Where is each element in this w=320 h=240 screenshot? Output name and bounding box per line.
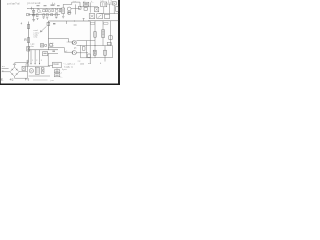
bridge bottom wire bbox=[15, 77, 28, 79]
label above stage 1 bbox=[37, 5, 40, 6]
detector box D1 bbox=[95, 7, 99, 12]
transistor Q2 bbox=[48, 9, 51, 12]
rail vertical x95 bbox=[94, 21, 96, 46]
junction vertical x48 bbox=[47, 53, 49, 66]
vertical wire x90 bbox=[89, 2, 91, 12]
svg-text:1: 1 bbox=[32, 60, 33, 62]
polarity plus mark bbox=[26, 60, 28, 62]
tuner box T2 bbox=[101, 2, 107, 7]
border frame right edge bbox=[118, 0, 120, 85]
capacitor C5 bbox=[55, 14, 57, 16]
C7 mark bbox=[27, 47, 29, 50]
svg-text:r.mx: r.mx bbox=[34, 37, 38, 39]
transformer bottom wire bbox=[29, 75, 50, 77]
label near x93 bbox=[92, 0, 94, 3]
control box B1 bbox=[53, 62, 62, 68]
wire drop 1 to transformer bbox=[30, 50, 32, 65]
wire bridge to C10 bbox=[19, 70, 27, 72]
capacitor C9 bbox=[93, 50, 96, 55]
Q5 base bar bbox=[72, 41, 74, 44]
drop 3 dot bbox=[39, 63, 40, 64]
annotation mark plus bbox=[21, 22, 23, 26]
diode D2 bbox=[116, 6, 118, 11]
B1 label bbox=[53, 62, 58, 66]
pin labels bbox=[32, 60, 42, 62]
coil L2 bbox=[84, 8, 87, 11]
IF transformer T1 box bbox=[62, 8, 65, 13]
Q1 leads bbox=[37, 8, 41, 13]
handwritten title annotation left bbox=[7, 2, 20, 6]
wire T2 to XTAL bbox=[107, 3, 113, 5]
capacitor C4 bbox=[51, 14, 53, 16]
resistor R8 bbox=[27, 24, 29, 28]
handwritten title annotation middle bbox=[27, 1, 41, 5]
capacitor C10 bbox=[22, 66, 26, 70]
F1 marks bbox=[90, 15, 93, 18]
rail vertical x110.5 bbox=[110, 21, 112, 46]
capacitor C3 bbox=[46, 14, 48, 16]
ground stage R1 bbox=[37, 18, 39, 21]
bottom small note bbox=[50, 80, 55, 82]
resistor R5 bbox=[59, 9, 61, 12]
wire top left stub bbox=[27, 7, 29, 9]
Q5 Q6 labels bbox=[74, 48, 77, 50]
wire Q5 emitter right bbox=[76, 44, 88, 46]
T3 internal lines bbox=[37, 68, 38, 74]
capacitor C2 bbox=[43, 10, 45, 12]
wire to control box bbox=[48, 64, 52, 66]
C11 mark bbox=[42, 69, 44, 73]
Y2 mark bbox=[41, 44, 43, 46]
junction dots on rail bbox=[95, 45, 96, 46]
capacitor C1 bbox=[32, 10, 35, 12]
trimmer arrow bbox=[40, 26, 46, 32]
junction dot x74 bbox=[74, 21, 75, 22]
Y1 mark bbox=[113, 2, 115, 4]
transistor Q3 bbox=[55, 10, 58, 13]
battery stack above bridge bbox=[13, 64, 16, 68]
K1 marks bbox=[102, 31, 104, 35]
resistor R3 bbox=[46, 9, 47, 12]
bridge bottom stub bbox=[14, 76, 16, 78]
coil L1 bbox=[32, 14, 35, 16]
F2 marks bbox=[98, 15, 102, 18]
svg-text:a.c: a.c bbox=[2, 66, 5, 68]
small box B3 bbox=[54, 74, 59, 77]
bridge diode mark 1 bbox=[12, 69, 14, 71]
second bus wire bbox=[28, 14, 60, 16]
svg-text:f. jada. t.c: f. jada. t.c bbox=[64, 65, 73, 68]
wire Q4 to rail bbox=[71, 8, 80, 10]
svg-text:t.v: t.v bbox=[74, 0, 76, 3]
T2 internal bbox=[102, 3, 105, 6]
vertical x95 lower bbox=[94, 46, 96, 58]
wire top-right lower bbox=[99, 13, 119, 15]
link between B2 B3 bbox=[56, 68, 58, 74]
stub junction x66 bbox=[66, 21, 68, 24]
notes text block bottom middle bbox=[60, 63, 76, 79]
wire lower rail bbox=[81, 57, 96, 59]
border frame bottom edge bbox=[0, 83, 120, 85]
mid bottom bus bbox=[29, 49, 59, 51]
wire: top main bus bbox=[27, 7, 62, 9]
left bus vertical bbox=[28, 22, 30, 63]
Q3 leads bbox=[55, 8, 57, 9]
L3 label bbox=[43, 53, 46, 54]
vertical wire at x75 bbox=[74, 4, 76, 14]
AC labels bbox=[2, 66, 5, 72]
wire to driver base bbox=[48, 39, 72, 42]
svg-text:4/2: 4/2 bbox=[10, 77, 14, 81]
wire to output base bbox=[48, 48, 71, 53]
handwritten title annotation right bbox=[52, 1, 56, 5]
bridge diode mark 2 bbox=[16, 69, 18, 71]
transistor Q6 output bbox=[72, 50, 76, 54]
Q5 emitter arrow bbox=[73, 41, 75, 44]
label above T2 bbox=[101, 0, 104, 3]
svg-text:r.fw: r.fw bbox=[30, 45, 34, 48]
small label right bottom bbox=[88, 63, 102, 65]
svg-text:1 2: 1 2 bbox=[108, 0, 112, 4]
vertical right of bridge bbox=[26, 62, 28, 79]
transistor Q5 driver bbox=[72, 40, 76, 44]
faint label below junction bbox=[74, 24, 77, 26]
bridge diode mark 4 bbox=[16, 73, 18, 75]
small mark right of C8 bbox=[53, 23, 55, 24]
resistor R12 bbox=[104, 50, 107, 55]
horizontal wire left low bbox=[15, 62, 29, 64]
bus under filters bbox=[88, 20, 119, 22]
drop 2 dot bbox=[35, 63, 36, 64]
label under F3 bbox=[104, 23, 108, 25]
output label under Q6 bbox=[78, 61, 82, 63]
resistor R6 bbox=[78, 6, 81, 9]
small box right bbox=[50, 44, 53, 47]
M2 mark bbox=[30, 70, 32, 72]
component on vertical bbox=[26, 64, 29, 66]
label above stage 2 bbox=[44, 5, 47, 6]
vertical x80.5 bbox=[80, 45, 82, 57]
svg-text:jm n.l w.nd: jm n.l w.nd bbox=[27, 1, 41, 5]
resistor R9 with label bbox=[27, 38, 29, 43]
resistor R2 bbox=[43, 14, 45, 17]
capacitor C11 bbox=[41, 68, 44, 73]
transistor Q1 bbox=[37, 10, 40, 13]
notes label right bbox=[80, 63, 85, 65]
trimmer C8 bbox=[47, 22, 50, 25]
wire right rail top bbox=[80, 6, 98, 8]
note text block mid-left bbox=[34, 30, 40, 38]
connector label left of stage1 bbox=[27, 13, 30, 15]
wire drop 3 to transformer bbox=[39, 50, 41, 65]
B2 label bbox=[55, 70, 58, 73]
resistor R10 bbox=[82, 47, 85, 51]
R9 label bbox=[24, 38, 27, 42]
vertical from Y1 down bbox=[113, 5, 115, 14]
mid vertical bus bbox=[47, 21, 49, 50]
Q5 label bbox=[67, 41, 70, 43]
motor M2 circle bbox=[29, 69, 33, 73]
caption formula bottom left bbox=[1, 77, 30, 81]
vertical x86.5 bbox=[86, 41, 88, 58]
T1 internal pins bbox=[62, 9, 63, 12]
filter box F2 bbox=[97, 14, 103, 19]
wire Q6 collector right bbox=[76, 52, 88, 54]
B3 label bbox=[55, 74, 58, 77]
Q6 base bar bbox=[72, 51, 74, 54]
meter M1 bbox=[67, 11, 71, 15]
stub up x83.5 bbox=[83, 18, 85, 21]
label above staircase bbox=[74, 0, 76, 3]
capacitor C7 bbox=[27, 46, 30, 51]
svg-text:Com: Com bbox=[53, 62, 58, 66]
label under F1 bbox=[90, 23, 94, 25]
AC input wire lower bbox=[2, 71, 10, 73]
U1 label bbox=[84, 3, 88, 4]
svg-text:~ r.- ad.h. c.v: ~ r.- ad.h. c.v bbox=[63, 63, 76, 66]
wire from L3 right bbox=[48, 52, 58, 54]
filter box F1 bbox=[89, 14, 95, 19]
svg-text:p.nl an? al: p.nl an? al bbox=[7, 2, 20, 6]
svg-text:t..: t.. bbox=[92, 0, 94, 3]
vertical from T2 down bbox=[103, 7, 105, 14]
transformer top wire bbox=[29, 65, 50, 67]
rail vertical x103 bbox=[102, 21, 104, 46]
resistor R7 bbox=[94, 32, 96, 38]
vertical x105 lower bbox=[104, 46, 106, 62]
ground C3 bbox=[46, 18, 48, 20]
wire staircase to R6 bbox=[72, 2, 80, 6]
label above U1 bbox=[83, 1, 86, 3]
M1 needle bbox=[68, 12, 70, 14]
ground below T1 bbox=[62, 13, 64, 18]
note text above bus bbox=[30, 44, 35, 48]
choke L3 bbox=[43, 52, 48, 56]
small marks x52-56 bbox=[52, 51, 55, 52]
M1 dots bbox=[68, 12, 69, 13]
AC input wire upper bbox=[2, 68, 9, 70]
svg-text:F-3: F-3 bbox=[25, 77, 30, 81]
svg-text:2: 2 bbox=[36, 60, 37, 62]
faint baseline bbox=[33, 79, 48, 81]
svg-text:J p.s.: J p.s. bbox=[62, 69, 67, 71]
crystal Y1 bbox=[112, 2, 116, 5]
transformer T3 bbox=[35, 67, 39, 74]
Q6 label bbox=[65, 51, 68, 53]
resistor R4 bbox=[52, 9, 53, 12]
vertical x112.4 lower bbox=[111, 46, 113, 58]
svg-text:E.: E. bbox=[1, 77, 4, 81]
vertical x90 lower bbox=[89, 46, 91, 64]
label top right corner bbox=[108, 0, 112, 4]
filter box F3 bbox=[105, 14, 110, 18]
bridge rectifier diamond bbox=[10, 67, 19, 76]
right rail horizontal mid bbox=[88, 45, 112, 47]
wire drop 2 to transformer bbox=[34, 50, 36, 65]
ground stage1 bbox=[32, 20, 35, 22]
small box above rail bbox=[107, 42, 111, 45]
ground C5 bbox=[55, 16, 57, 19]
crystal Y2 bbox=[40, 44, 43, 47]
vertical wire x109.6 bbox=[109, 4, 111, 14]
wire Q5 collector right bbox=[76, 40, 95, 42]
Q6 marks bbox=[74, 51, 76, 53]
resistor R1 bbox=[37, 14, 39, 17]
trimmer small circle bbox=[44, 44, 46, 46]
border frame left edge bbox=[0, 0, 1, 85]
C10 mark bbox=[23, 67, 25, 69]
svg-text:3: 3 bbox=[41, 60, 42, 62]
small box B2 bbox=[54, 70, 59, 73]
relay coil K1 bbox=[102, 30, 105, 38]
resistor R11 bbox=[88, 54, 91, 57]
stage1 vertical wire bbox=[33, 8, 35, 19]
C9 mark bbox=[94, 51, 96, 54]
bridge diode mark 3 bbox=[12, 73, 14, 75]
oscillator box U1 bbox=[83, 2, 89, 6]
D1 marks bbox=[96, 8, 98, 10]
note text small bbox=[51, 43, 55, 47]
rail vertical x90 upper bbox=[89, 21, 91, 46]
capacitor C6 bbox=[109, 36, 112, 40]
label above stage 3 bbox=[51, 5, 55, 6]
bottom right rail bbox=[95, 57, 112, 59]
long mid horizontal bus bbox=[48, 20, 90, 22]
drop 1 dot bbox=[30, 63, 31, 64]
node: antenna input junction bbox=[30, 7, 33, 10]
label above stage 4 bbox=[57, 5, 60, 6]
transistor Q4 bbox=[67, 7, 71, 11]
wire up from T1 bbox=[63, 4, 72, 8]
ground R2 bbox=[43, 17, 45, 20]
